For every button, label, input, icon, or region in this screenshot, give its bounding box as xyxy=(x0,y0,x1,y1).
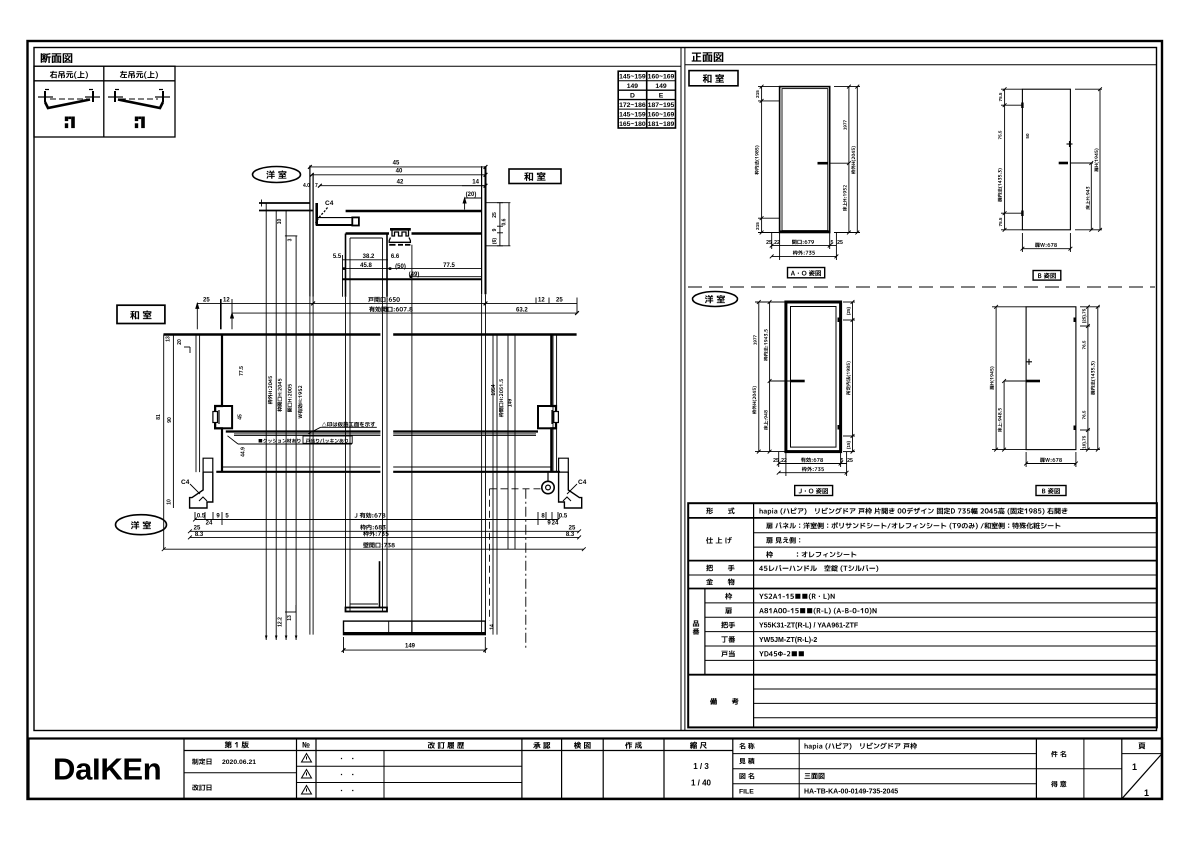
dashed swing lines xyxy=(490,488,542,490)
svg-text:(49): (49) xyxy=(409,272,420,278)
leader to leaf note1 xyxy=(321,426,377,428)
svg-text:77.5: 77.5 xyxy=(443,263,455,269)
svg-text:3: 3 xyxy=(288,238,294,241)
svg-text:149: 149 xyxy=(655,83,667,90)
top-left small dims 4.0 7 xyxy=(303,183,318,189)
door B rotated labels xyxy=(998,92,1099,226)
door B view tag xyxy=(1033,271,1061,281)
dim line 45 xyxy=(310,166,486,168)
svg-text:HA-TB-KA-00-0149-735-2045: HA-TB-KA-00-0149-735-2045 xyxy=(804,789,898,796)
door top hardware profile xyxy=(390,228,411,231)
door D bottom dim xyxy=(1024,452,1078,467)
svg-text:25: 25 xyxy=(203,298,210,304)
revision dots xyxy=(341,758,354,791)
svg-text:14: 14 xyxy=(472,179,479,185)
svg-text:0.5: 0.5 xyxy=(197,514,206,520)
svg-text:42: 42 xyxy=(397,179,404,185)
hinge diagram right-hung xyxy=(38,90,100,109)
left jamb block xyxy=(215,335,222,473)
svg-text:C4: C4 xyxy=(181,479,190,486)
hinge mark left cell xyxy=(135,117,145,129)
svg-text:149: 149 xyxy=(508,399,514,408)
svg-text:(20): (20) xyxy=(466,192,477,198)
door B bottom label xyxy=(1035,243,1057,248)
svg-text:1977: 1977 xyxy=(753,334,758,345)
arrow 20 xyxy=(465,197,482,199)
door A handle xyxy=(818,162,828,165)
hinge table header right 左吊元(上) xyxy=(120,71,158,79)
door A frame xyxy=(780,87,849,233)
wall dim verticals right xyxy=(481,294,483,634)
door D bottom label xyxy=(1040,458,1062,463)
top section dim texts xyxy=(333,161,480,279)
svg-text:215: 215 xyxy=(755,222,760,230)
room label box 和室 right panel xyxy=(689,71,738,86)
long vertical v5 xyxy=(411,245,413,635)
svg-text:7: 7 xyxy=(315,183,318,189)
plan bottom thick line xyxy=(216,471,380,473)
threshold plate xyxy=(344,621,486,635)
name column labels xyxy=(739,743,755,796)
door C bottom dims xyxy=(777,452,849,476)
svg-text:25: 25 xyxy=(194,525,201,531)
svg-text:25: 25 xyxy=(773,458,779,464)
svg-text:63.2: 63.2 xyxy=(516,307,528,313)
dashed section separator xyxy=(688,286,1155,288)
door A view tag xyxy=(788,268,825,278)
room label oval 洋室 bottom xyxy=(116,515,167,535)
right wall double line xyxy=(481,166,483,294)
head drawing bottom line xyxy=(342,278,482,280)
leaf top inner line xyxy=(350,237,383,239)
revision rows xyxy=(192,758,256,790)
sill channel bottom plate xyxy=(346,608,388,612)
svg-text:75.5: 75.5 xyxy=(998,92,1003,101)
svg-text:45: 45 xyxy=(393,161,400,167)
left head jamb post xyxy=(315,203,318,226)
spec sub column divider xyxy=(704,589,706,675)
small tick for vertical group xyxy=(285,235,297,237)
svg-text:76.5: 76.5 xyxy=(1082,410,1087,419)
svg-text:4.0: 4.0 xyxy=(303,183,310,189)
svg-text:76.5: 76.5 xyxy=(1082,340,1087,349)
warning triangles xyxy=(302,754,312,795)
svg-text:8.3: 8.3 xyxy=(566,532,575,538)
svg-text:25: 25 xyxy=(569,525,576,531)
title block horizontal lines xyxy=(184,750,733,752)
svg-text:12: 12 xyxy=(538,298,545,304)
door A rotated labels xyxy=(755,90,856,230)
svg-text:DaIKEn: DaIKEn xyxy=(53,752,161,787)
long vertical v2 xyxy=(349,238,351,612)
hinge table column divider xyxy=(103,66,105,137)
room label oval 洋室 right panel xyxy=(693,292,738,307)
left wall double line xyxy=(309,166,311,297)
svg-text:1 / 40: 1 / 40 xyxy=(691,779,712,788)
inner border xyxy=(34,48,1157,731)
right vertical dim 1 xyxy=(499,203,501,246)
svg-text:25: 25 xyxy=(766,240,772,246)
svg-text:90: 90 xyxy=(167,417,173,423)
spec values xyxy=(759,508,1067,657)
door C rotated labels xyxy=(752,306,851,449)
door A left dim xyxy=(758,85,780,235)
door leaf top line xyxy=(226,430,381,432)
hinge table header line xyxy=(34,80,175,82)
right casing boot xyxy=(559,458,569,472)
panel divider left line xyxy=(680,48,682,731)
title block frame xyxy=(29,739,1163,799)
door A bottom dims xyxy=(770,233,839,260)
far left dim verticals xyxy=(163,335,165,550)
door B left dim xyxy=(1001,87,1022,231)
small dim bracket 12.2 xyxy=(285,611,296,613)
svg-text:187~195: 187~195 xyxy=(648,102,675,109)
svg-text:6.6: 6.6 xyxy=(391,254,400,260)
hinge diagram left-hung xyxy=(108,90,170,109)
svg-text:75.5: 75.5 xyxy=(998,130,1003,139)
bottom dim labels xyxy=(194,513,576,548)
svg-text:215: 215 xyxy=(755,90,760,98)
door D left dims xyxy=(992,305,1026,452)
door B leaf xyxy=(1021,89,1072,230)
svg-text:14: 14 xyxy=(490,624,496,630)
page diagonal xyxy=(1122,754,1162,799)
room label box 和室 left xyxy=(117,305,165,323)
svg-text:YW5JM-ZT(R-L)-2: YW5JM-ZT(R-L)-2 xyxy=(759,637,817,644)
rotated dim labels center-left xyxy=(156,219,514,505)
rotated labels bottom drawing xyxy=(278,615,496,630)
inner dim line c xyxy=(411,276,482,278)
top-left bracket 13 20 xyxy=(184,346,190,348)
svg-text:22: 22 xyxy=(774,240,780,246)
threshold dim line xyxy=(344,649,486,651)
svg-text:1954: 1954 xyxy=(491,384,497,395)
door C right dim xyxy=(843,300,855,453)
door B bottom dim xyxy=(1021,233,1073,252)
door D view tag xyxy=(1036,486,1066,496)
right header title 正面図 xyxy=(692,52,724,62)
svg-text:25: 25 xyxy=(847,458,853,464)
svg-text:1977: 1977 xyxy=(843,119,848,130)
left header band line xyxy=(34,65,681,67)
door B right dims xyxy=(1070,87,1102,231)
svg-text:C4: C4 xyxy=(578,479,587,486)
hinge mark right cell xyxy=(65,117,75,129)
svg-text:FILE: FILE xyxy=(739,789,754,796)
door C handle xyxy=(790,380,805,383)
hinge table frame xyxy=(34,66,175,137)
svg-text:12.2: 12.2 xyxy=(278,617,284,627)
svg-text:10: 10 xyxy=(167,499,173,505)
leader to leaf note2 xyxy=(238,443,352,445)
svg-text:E: E xyxy=(659,92,664,99)
svg-text:C4: C4 xyxy=(325,200,334,207)
svg-text:25: 25 xyxy=(837,240,843,246)
svg-text:Y55K31-ZT(R-L) / YAA961-ZTF: Y55K31-ZT(R-L) / YAA961-ZTF xyxy=(759,623,859,630)
svg-text:24: 24 xyxy=(552,521,559,527)
range table column divider xyxy=(646,71,648,128)
title block vertical lines xyxy=(183,739,185,799)
svg-text:24: 24 xyxy=(206,521,213,527)
svg-text:13: 13 xyxy=(166,336,172,342)
dim line 40 xyxy=(312,174,486,176)
note text 1 xyxy=(322,422,375,427)
svg-text:172~186: 172~186 xyxy=(619,102,646,109)
range table frame xyxy=(618,71,675,128)
door D right dims xyxy=(1080,305,1100,452)
rotated right dims xyxy=(492,212,508,244)
inner dim line a xyxy=(343,259,389,261)
door C left dims xyxy=(755,300,790,453)
chamfer hatch xyxy=(316,208,328,223)
door A bottom labels xyxy=(766,240,843,255)
right vertical dim 2 xyxy=(508,203,510,246)
svg-text:5.5: 5.5 xyxy=(333,254,342,260)
svg-text:12: 12 xyxy=(223,298,230,304)
spec row lines xyxy=(688,517,1157,519)
svg-text:5: 5 xyxy=(831,240,834,246)
svg-text:10: 10 xyxy=(277,219,283,225)
spec label column divider xyxy=(753,503,755,727)
right labels xyxy=(1051,751,1066,787)
svg-text:20: 20 xyxy=(177,339,183,345)
door D leaf xyxy=(1026,307,1076,450)
svg-text:0.5: 0.5 xyxy=(559,514,568,520)
long vertical v1 xyxy=(345,234,347,297)
long vertical v3 xyxy=(382,238,384,612)
svg-text:45.8: 45.8 xyxy=(360,263,372,269)
svg-text:8.3: 8.3 xyxy=(195,532,204,538)
dim line 42 xyxy=(320,185,486,187)
svg-text:145~159: 145~159 xyxy=(619,111,646,118)
svg-text:2020.06.21: 2020.06.21 xyxy=(222,759,256,766)
svg-text:1: 1 xyxy=(1144,788,1149,798)
svg-text:38.2: 38.2 xyxy=(363,254,375,260)
dim tick 14 xyxy=(462,185,486,187)
svg-text:9: 9 xyxy=(492,228,498,231)
plan wall left inner xyxy=(199,335,201,473)
plan inner bottom line xyxy=(223,466,380,468)
door leaf inner lines xyxy=(234,433,380,435)
panel divider right line xyxy=(684,48,686,731)
head jamb bottom line xyxy=(346,232,389,234)
bottom dim lines xyxy=(162,512,586,551)
svg-text:40: 40 xyxy=(396,169,403,175)
svg-text:165~180: 165~180 xyxy=(619,121,646,128)
svg-text:50: 50 xyxy=(1025,133,1030,139)
svg-text:(50): (50) xyxy=(395,264,406,270)
svg-text:44.9: 44.9 xyxy=(241,447,247,457)
svg-text:22: 22 xyxy=(781,458,787,464)
scale values xyxy=(691,762,712,788)
svg-text:181~189: 181~189 xyxy=(648,121,675,128)
sill channel left verticals xyxy=(379,561,381,607)
sill channel inner line xyxy=(350,603,378,605)
right dim verticals xyxy=(492,335,494,635)
spec table frame xyxy=(688,503,1157,727)
left casing boot xyxy=(203,458,213,472)
hinge table header left 右吊元(上) xyxy=(50,71,88,79)
svg-text:25: 25 xyxy=(492,212,498,218)
svg-text:45: 45 xyxy=(238,414,244,420)
svg-text:(6): (6) xyxy=(492,238,498,244)
right header band line xyxy=(685,64,1157,66)
inner dim line b xyxy=(343,268,482,270)
svg-text:149: 149 xyxy=(627,83,639,90)
wide dim line 内開口 xyxy=(196,298,579,330)
wide dim labels xyxy=(203,297,563,314)
svg-text:13: 13 xyxy=(287,615,293,621)
door closer circle xyxy=(547,472,549,481)
door D handle cross xyxy=(1026,361,1032,363)
spec labels xyxy=(693,507,739,704)
svg-text:160~169: 160~169 xyxy=(648,111,675,118)
door B handle cross xyxy=(1067,143,1073,145)
svg-text:77.5: 77.5 xyxy=(239,366,245,376)
svg-text:5: 5 xyxy=(841,458,844,464)
plan wall right inner xyxy=(552,335,554,473)
svg-text:(10).75: (10).75 xyxy=(1082,435,1087,450)
door A right dims xyxy=(834,85,860,235)
room label box 和室 top xyxy=(509,169,561,184)
wall dim verticals left xyxy=(309,297,311,635)
svg-text:149: 149 xyxy=(405,644,416,650)
casing band xyxy=(318,217,352,219)
svg-text:75.5: 75.5 xyxy=(998,217,1003,226)
svg-text:(25): (25) xyxy=(846,306,851,315)
svg-text:1: 1 xyxy=(1132,762,1137,772)
svg-text:1 / 3: 1 / 3 xyxy=(693,762,709,771)
range table row lines xyxy=(618,80,675,82)
plan top line xyxy=(164,333,381,335)
door C frame xyxy=(786,302,841,452)
svg-text:D: D xyxy=(630,92,635,99)
svg-text:0.6: 0.6 xyxy=(502,218,508,225)
door C bottom labels xyxy=(773,457,853,471)
left header title 断面図 xyxy=(41,53,73,63)
room label oval 洋室 top xyxy=(253,167,301,183)
door D rotated labels xyxy=(990,308,1095,450)
svg-text:(15): (15) xyxy=(846,440,851,449)
svg-text:145~159: 145~159 xyxy=(619,74,646,81)
long vertical v4 xyxy=(386,234,388,297)
svg-text:81: 81 xyxy=(156,414,162,420)
name column values xyxy=(804,743,917,796)
svg-text:160~169: 160~169 xyxy=(648,74,675,81)
svg-text:25: 25 xyxy=(556,298,563,304)
note text 2 xyxy=(259,439,301,443)
title block headers xyxy=(225,741,1145,749)
head jamb top line xyxy=(346,210,482,212)
svg-text:(25).75: (25).75 xyxy=(1082,308,1087,323)
right jamb block xyxy=(551,335,556,473)
left wall horizontal stubs xyxy=(259,202,310,204)
door C view tag xyxy=(795,486,833,496)
left dim verticals group xyxy=(265,204,267,641)
range table values xyxy=(619,74,674,129)
